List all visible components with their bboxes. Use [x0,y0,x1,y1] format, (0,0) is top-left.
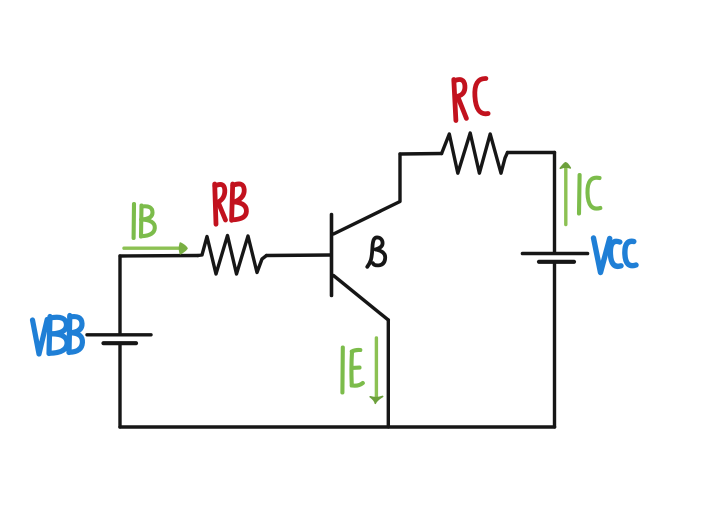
wire: RB to transistor base [267,253,332,257]
wire: emitter down to bottom wire [387,320,390,427]
wire: top-left horizontal from left column to RB [120,254,198,258]
label VBB (blue) [33,316,83,355]
current arrow IE (green) [370,338,382,403]
wire: bottom horizontal [120,425,555,429]
current arrow IB (green) [124,243,187,253]
label IE (green) [342,348,362,393]
resistor RC [442,133,508,173]
label VCC (blue) [594,238,637,273]
wire: VBB battery down to bottom wire [118,345,121,428]
battery VCC [523,254,588,262]
transistor Q1 base bar [330,215,334,296]
wire: VCC battery down to bottom wire [553,264,556,428]
wire: collector top to RC [400,152,442,156]
transistor Q1 emitter stroke [334,276,389,321]
wire: RC to right column [508,151,555,154]
label IC (green) [579,175,600,214]
label RC (red) [454,78,488,120]
label RB (red) [215,184,247,224]
label IB (green) [134,204,155,238]
resistor RB [198,236,267,275]
wire: right column down to VCC battery [553,153,556,253]
wire: left column top down to VBB battery [118,256,121,333]
label beta (black) [367,237,385,266]
current arrow IC (green) [560,163,570,225]
battery VBB [87,335,151,343]
transistor Q1 collector stroke [334,154,401,234]
